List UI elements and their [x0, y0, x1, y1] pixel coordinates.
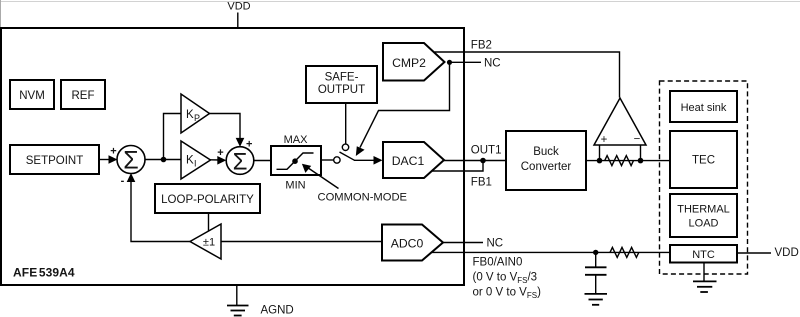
svg-text:TEC: TEC: [692, 155, 715, 167]
svg-text:OUTPUT: OUTPUT: [318, 84, 365, 96]
svg-text:±1: ±1: [203, 237, 215, 249]
svg-text:DAC1: DAC1: [392, 154, 425, 168]
svg-text:VDD: VDD: [227, 1, 250, 13]
svg-text:SETPOINT: SETPOINT: [26, 155, 84, 167]
svg-text:NC: NC: [487, 237, 504, 249]
svg-text:+: +: [217, 147, 223, 159]
svg-text:LOOP-POLARITY: LOOP-POLARITY: [161, 194, 254, 206]
svg-text:(0 V to VFS/3: (0 V to VFS/3: [473, 272, 538, 286]
svg-text:FB2: FB2: [471, 40, 492, 52]
svg-text:AFE539A4: AFE539A4: [13, 266, 75, 280]
svg-text:Σ: Σ: [123, 147, 138, 175]
svg-text:VDD: VDD: [775, 247, 799, 259]
svg-text:Σ: Σ: [233, 148, 248, 175]
svg-text:P: P: [194, 113, 200, 123]
svg-text:−: −: [634, 134, 641, 146]
svg-text:AGND: AGND: [261, 305, 294, 317]
svg-text:K: K: [186, 155, 194, 167]
svg-text:COMMON-MODE: COMMON-MODE: [318, 192, 408, 204]
svg-text:CMP2: CMP2: [392, 56, 426, 70]
svg-text:THERMAL: THERMAL: [677, 203, 730, 215]
svg-text:REF: REF: [72, 90, 95, 102]
svg-text:FB0/AIN0: FB0/AIN0: [473, 257, 523, 269]
svg-text:I: I: [194, 159, 197, 169]
svg-text:-: -: [121, 175, 125, 187]
svg-text:ADC0: ADC0: [391, 236, 424, 250]
svg-text:FB1: FB1: [471, 176, 492, 188]
svg-text:+: +: [110, 146, 116, 158]
svg-text:MAX: MAX: [284, 134, 309, 146]
svg-text:LOAD: LOAD: [689, 217, 719, 229]
svg-text:MIN: MIN: [285, 180, 305, 192]
svg-text:Converter: Converter: [521, 161, 572, 173]
svg-text:NC: NC: [484, 57, 501, 69]
svg-text:NVM: NVM: [19, 90, 45, 102]
svg-text:SAFE-: SAFE-: [325, 71, 359, 83]
svg-text:OUT1: OUT1: [471, 144, 502, 156]
svg-text:+: +: [601, 134, 608, 146]
svg-text:K: K: [186, 109, 194, 121]
svg-text:NTC: NTC: [692, 249, 715, 261]
svg-text:Buck: Buck: [533, 146, 559, 158]
svg-text:Heat sink: Heat sink: [681, 102, 727, 114]
